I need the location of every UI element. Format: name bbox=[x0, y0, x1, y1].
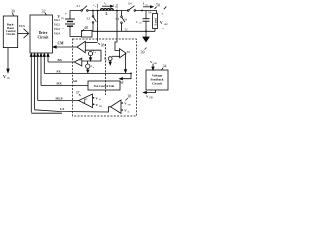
svg-text:−: − bbox=[62, 25, 65, 30]
svg-text:MLP: MLP bbox=[56, 97, 63, 101]
svg-text:54: 54 bbox=[148, 11, 152, 15]
svg-text:Ton Control Unit: Ton Control Unit bbox=[94, 85, 115, 88]
svg-text:VG2: VG2 bbox=[54, 23, 60, 27]
svg-text:PX: PX bbox=[57, 70, 62, 74]
wire battery bottom to left ground rail bbox=[70, 26, 82, 36]
wire PX line bbox=[44, 72, 131, 74]
svg-text:Circuit: Circuit bbox=[152, 82, 163, 86]
wire rail S1 to S4 bbox=[88, 10, 128, 12]
svg-text:LX: LX bbox=[60, 107, 65, 111]
wire battery top to rail bbox=[70, 11, 81, 20]
node VCS arrow between boxes bbox=[18, 33, 28, 35]
svg-text:Circuit: Circuit bbox=[38, 35, 50, 39]
svg-text:S3: S3 bbox=[116, 17, 120, 21]
svg-text:S1: S1 bbox=[77, 4, 81, 8]
power source Vin battery bbox=[58, 15, 65, 20]
wire sense node X down to comparator input bbox=[97, 11, 99, 42]
ground arrow bbox=[145, 31, 147, 37]
wire stub 1 / BX bbox=[47, 56, 49, 62]
node Vout input bbox=[150, 60, 157, 65]
switch S2 bbox=[92, 11, 94, 16]
switch S3 bbox=[121, 11, 123, 17]
svg-text:S2: S2 bbox=[87, 17, 91, 21]
wire stub 6 bbox=[30, 56, 32, 113]
svg-text:VG4: VG4 bbox=[54, 32, 60, 36]
comparator U37 with hysteresis bbox=[79, 94, 93, 108]
node VFB output arrow bbox=[146, 90, 156, 93]
svg-text:VCS: VCS bbox=[19, 24, 25, 28]
node sense X junction bbox=[97, 10, 99, 12]
inductor L bbox=[101, 9, 114, 11]
svg-text:S4: S4 bbox=[128, 2, 132, 6]
svg-text:FB: FB bbox=[99, 105, 102, 108]
svg-text:V: V bbox=[160, 21, 163, 25]
wire stub 5 / LX bbox=[34, 56, 36, 110]
svg-text:Load: Load bbox=[153, 18, 157, 26]
svg-text:34: 34 bbox=[163, 64, 167, 69]
svg-text:50: 50 bbox=[156, 2, 160, 7]
wire MX line bbox=[41, 85, 88, 87]
svg-text:52: 52 bbox=[125, 28, 129, 32]
resistor load box bbox=[153, 14, 158, 29]
svg-text:54: 54 bbox=[124, 18, 128, 22]
ref numeral 30 bbox=[11, 9, 15, 13]
wire stub 3 / MX bbox=[40, 56, 42, 86]
dashed controller box 38 bbox=[73, 39, 137, 116]
switch S4 bbox=[127, 10, 129, 12]
ref numeral 32 bbox=[42, 9, 46, 14]
label Vout + - bbox=[160, 11, 168, 30]
svg-text:30: 30 bbox=[11, 9, 15, 13]
wire CM output to drive circuit bbox=[56, 46, 77, 48]
wire sense node Y down to amp U36 bbox=[115, 11, 120, 51]
svg-text:40: 40 bbox=[84, 25, 88, 30]
svg-text:38: 38 bbox=[101, 43, 105, 48]
label Iout arrow bbox=[143, 2, 148, 7]
wire PX junction down to Ton unit bbox=[122, 73, 131, 78]
svg-text:V: V bbox=[58, 15, 61, 19]
hysteresis glyph bbox=[83, 99, 88, 103]
current source Ib2 above wire bbox=[88, 52, 92, 56]
comparator U38 bbox=[111, 100, 122, 113]
svg-text:BX: BX bbox=[58, 58, 63, 62]
wire MLP line bbox=[38, 100, 79, 102]
wire LX line bbox=[35, 107, 111, 112]
ref numeral 50 bbox=[156, 2, 160, 7]
wire input 2 loop bbox=[82, 50, 101, 61]
input terminals bbox=[121, 102, 123, 104]
box U34 Voltage Feedback Circuit bbox=[146, 70, 168, 90]
label iy bbox=[114, 3, 118, 8]
resistor Rsense 40 on ground return bbox=[82, 31, 93, 38]
svg-text:32: 32 bbox=[42, 9, 46, 14]
capacitor Cout bbox=[145, 11, 147, 19]
dashed divider bbox=[105, 44, 107, 95]
box U30 Buck-Boost Control Circuit bbox=[3, 16, 17, 48]
svg-text:39: 39 bbox=[141, 50, 145, 55]
label iL current arrow bbox=[104, 1, 108, 6]
svg-text:FB: FB bbox=[149, 96, 152, 99]
pin labels G1-G4 right of drive circuit bbox=[54, 18, 60, 36]
svg-text:VG3: VG3 bbox=[54, 27, 60, 31]
svg-text:AO: AO bbox=[73, 79, 78, 83]
wire input 1 bbox=[85, 42, 97, 44]
svg-text:out: out bbox=[154, 62, 158, 65]
node Y junction bbox=[116, 10, 118, 12]
op-amp U1 current comparator (CM) bbox=[77, 41, 85, 52]
svg-text:36: 36 bbox=[127, 50, 131, 54]
box Ton Control Unit bbox=[88, 81, 120, 90]
wire rail S4 to output bbox=[136, 11, 157, 14]
node Vth terminal below box 30 bbox=[7, 48, 9, 69]
wire U36 output to PX bbox=[125, 53, 128, 69]
ref numeral 54 bbox=[148, 11, 152, 15]
svg-text:Circuit: Circuit bbox=[6, 32, 15, 36]
wire stub 4 / MLP bbox=[37, 56, 39, 101]
wire stub 2 / PX bbox=[43, 56, 45, 73]
wire stub6 bottom run bbox=[31, 112, 62, 114]
svg-text:38: 38 bbox=[128, 95, 132, 99]
svg-text:V: V bbox=[3, 74, 6, 79]
current source Ios bbox=[108, 57, 112, 61]
switch S1 bbox=[81, 10, 83, 12]
svg-text:FB: FB bbox=[128, 103, 131, 106]
current source Ib1 bbox=[86, 64, 90, 68]
node X junction bbox=[92, 10, 94, 12]
svg-text:out: out bbox=[145, 3, 148, 6]
svg-text:36: 36 bbox=[79, 58, 83, 62]
box U32 Drive Circuit bbox=[30, 15, 53, 53]
wire U36 lower input bbox=[112, 55, 120, 57]
wire ground rail right bbox=[92, 30, 155, 32]
input terminals Vth Vfb bbox=[93, 97, 95, 99]
node output junction bbox=[141, 10, 143, 12]
ref numeral 38 with leader bbox=[101, 43, 105, 48]
svg-text:−: − bbox=[162, 26, 165, 31]
svg-text:MX: MX bbox=[57, 82, 63, 86]
svg-text:out: out bbox=[164, 23, 168, 26]
svg-text:out: out bbox=[139, 22, 142, 25]
wire BX line bbox=[48, 61, 74, 63]
ref numeral 39 bbox=[141, 50, 145, 55]
op-amp U2 comparator BX bbox=[74, 58, 82, 66]
label ix bbox=[94, 3, 98, 8]
svg-text:CM: CM bbox=[58, 42, 65, 46]
ref numeral 34 bbox=[163, 64, 167, 69]
op-amp U36 error amp bbox=[120, 49, 126, 58]
